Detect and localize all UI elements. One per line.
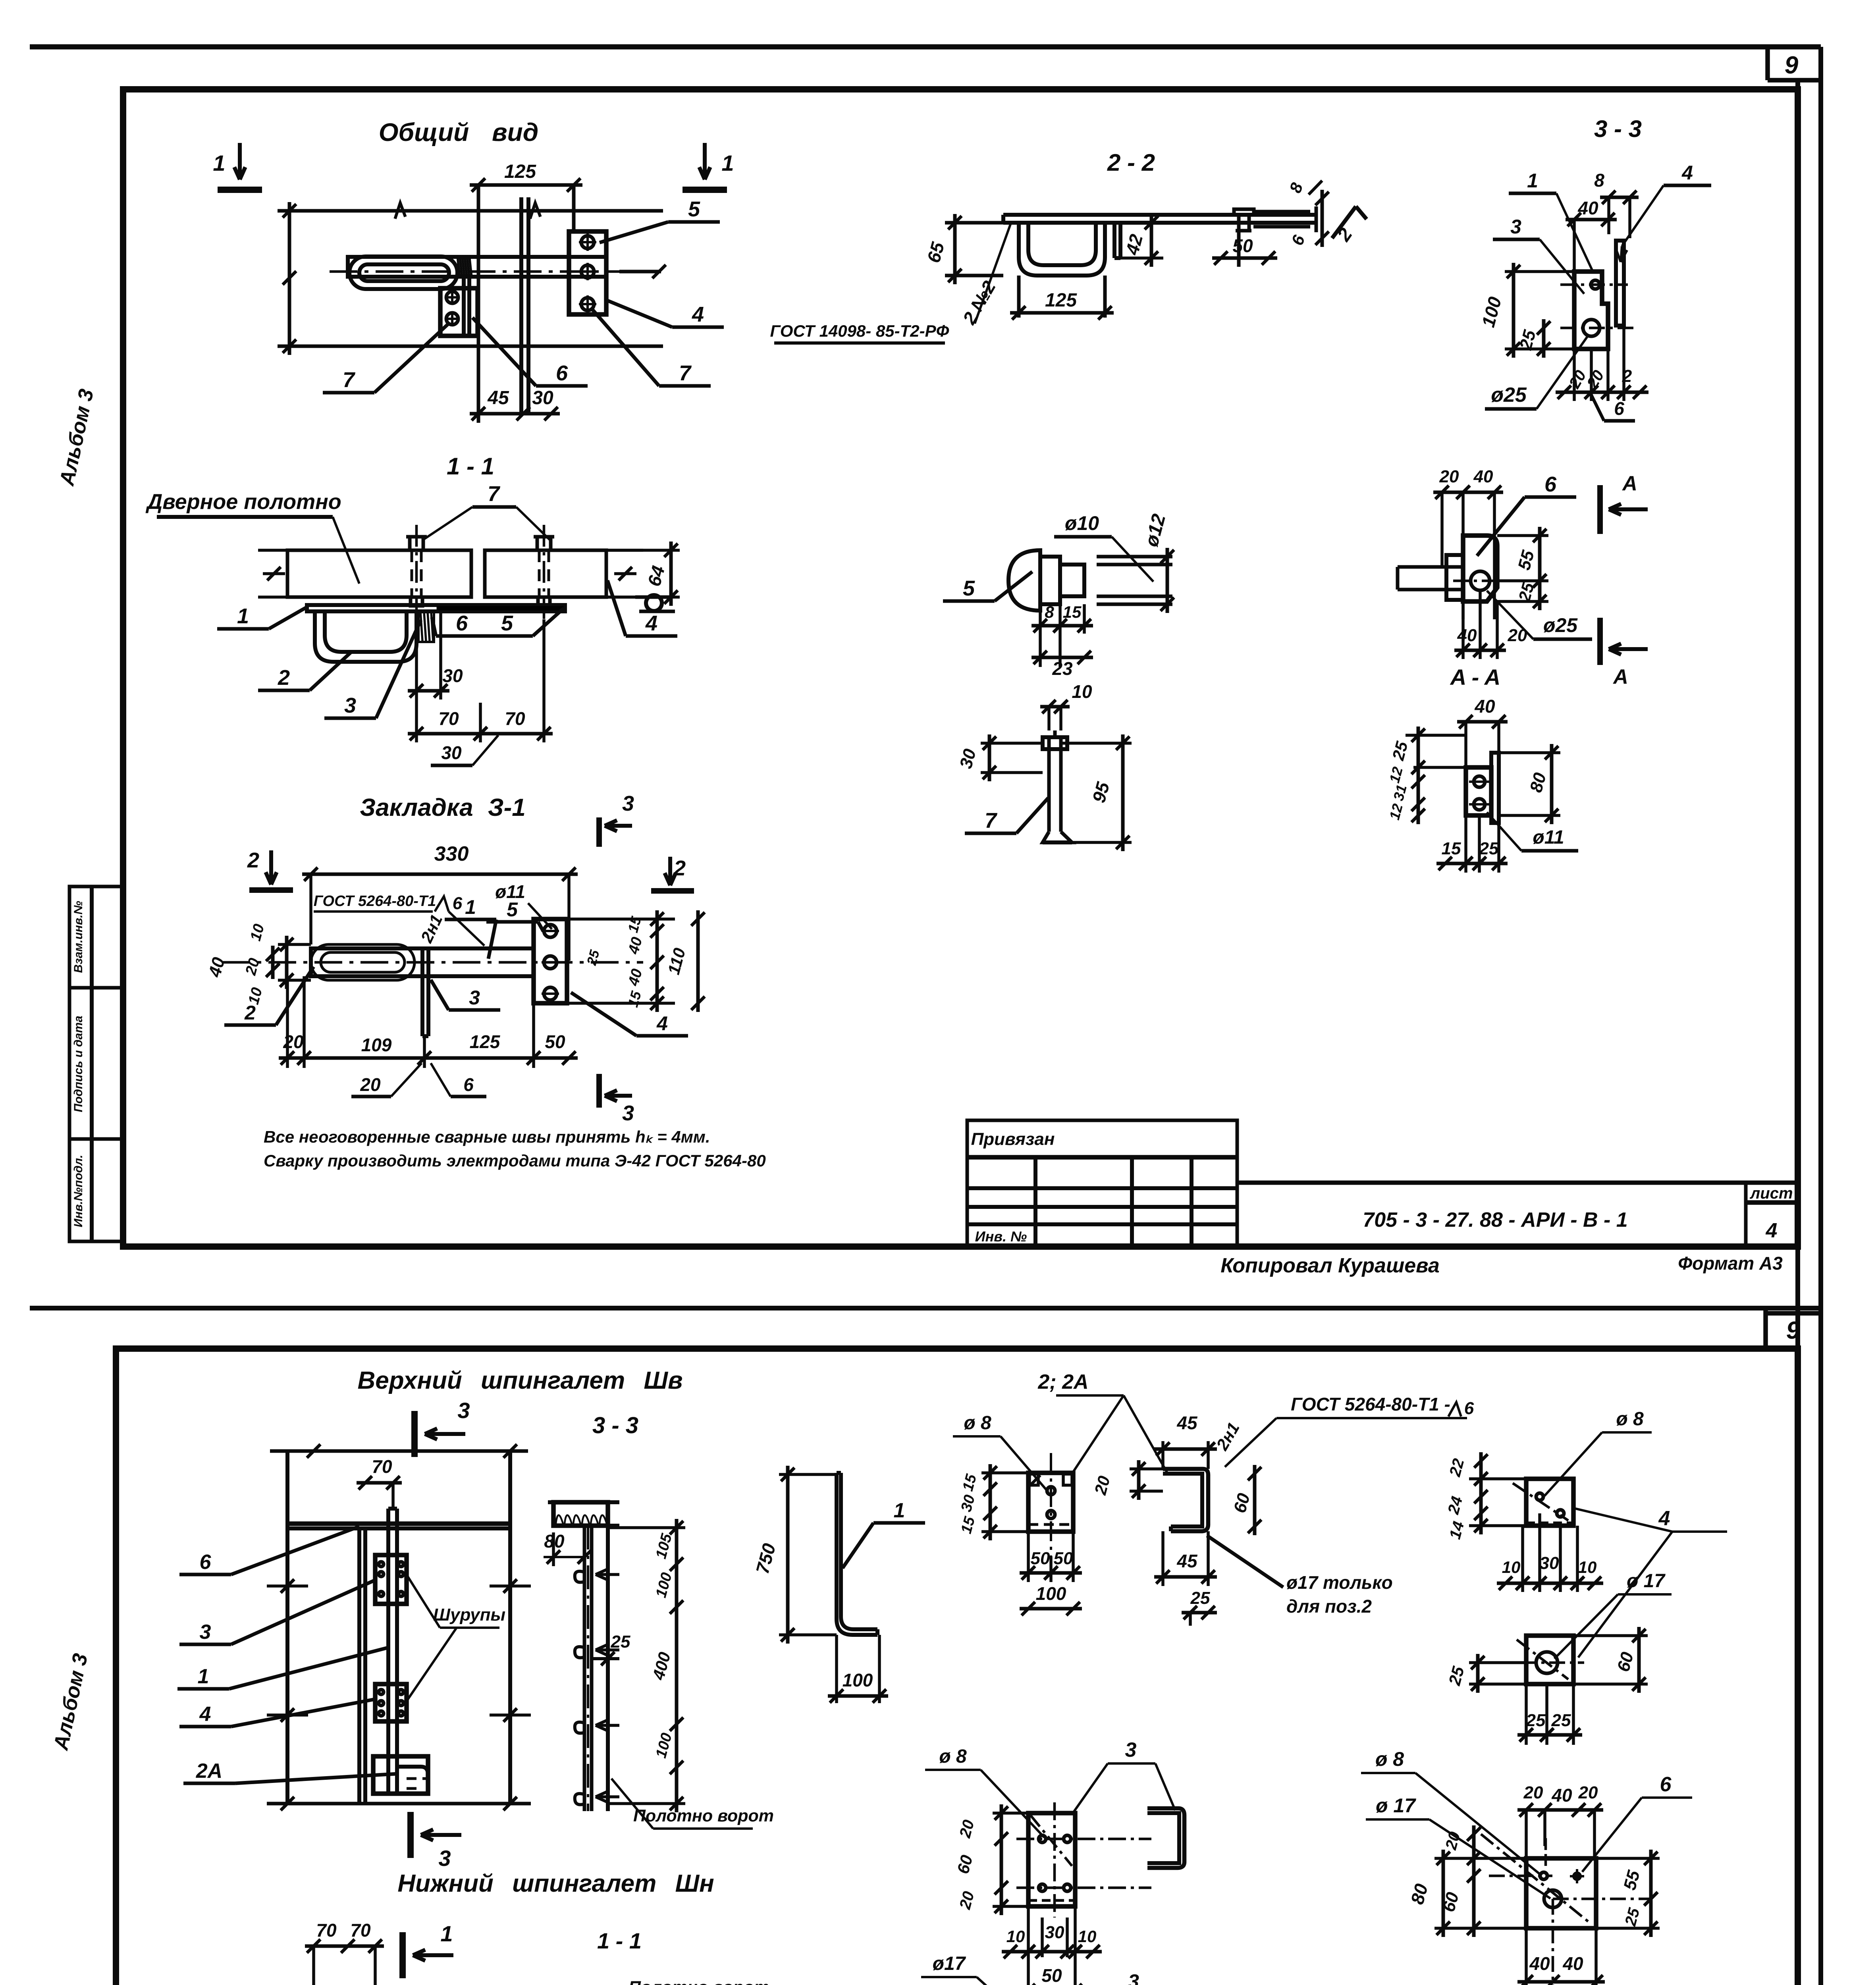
svg-text:23: 23	[1052, 658, 1073, 679]
svg-text:3: 3	[457, 1398, 470, 1423]
svg-text:6: 6	[556, 361, 568, 385]
svg-text:20: 20	[283, 1031, 304, 1052]
svg-text:6: 6	[456, 611, 468, 635]
svg-text:65: 65	[923, 239, 949, 265]
svg-text:15: 15	[1442, 839, 1461, 858]
svg-text:Альбом 3: Альбом 3	[49, 1652, 92, 1753]
svg-text:25: 25	[1621, 1906, 1643, 1928]
svg-text:ø17: ø17	[933, 1953, 966, 1974]
svg-text:4: 4	[1681, 162, 1693, 184]
svg-text:6: 6	[1544, 472, 1557, 496]
svg-text:14: 14	[1446, 1519, 1467, 1541]
svg-text:ø 17: ø 17	[1376, 1794, 1416, 1817]
svg-text:20: 20	[956, 1818, 978, 1840]
svg-text:40: 40	[1562, 1953, 1583, 1974]
svg-text:4: 4	[1766, 1219, 1778, 1242]
svg-text:2: 2	[244, 1002, 256, 1024]
svg-text:40: 40	[1474, 696, 1495, 717]
svg-text:7: 7	[343, 368, 356, 392]
svg-text:ø 8: ø 8	[1616, 1409, 1644, 1430]
svg-text:Взам.инв.№: Взам.инв.№	[72, 901, 85, 973]
svg-text:3: 3	[1128, 1970, 1139, 1985]
svg-text:70: 70	[350, 1920, 371, 1941]
svg-text:8: 8	[1286, 180, 1306, 195]
svg-text:3: 3	[622, 792, 634, 815]
svg-text:30: 30	[1045, 1923, 1064, 1942]
svg-text:42: 42	[1122, 232, 1147, 257]
svg-text:Шурупы: Шурупы	[433, 1605, 505, 1625]
svg-text:40: 40	[1551, 1785, 1572, 1806]
svg-text:ø12: ø12	[1141, 512, 1170, 549]
svg-text:30: 30	[442, 665, 463, 686]
svg-text:Формат А3: Формат А3	[1678, 1253, 1783, 1274]
svg-text:22: 22	[1446, 1457, 1467, 1478]
svg-text:3: 3	[438, 1846, 451, 1871]
svg-text:45: 45	[487, 387, 509, 409]
svg-text:20: 20	[1442, 1830, 1463, 1852]
svg-text:125: 125	[504, 161, 536, 182]
svg-text:7: 7	[679, 361, 692, 385]
svg-text:1: 1	[440, 1921, 453, 1946]
svg-text:7: 7	[488, 482, 501, 506]
svg-text:ГОСТ 5264-80-Т1: ГОСТ 5264-80-Т1	[314, 893, 436, 910]
svg-text:40: 40	[625, 967, 646, 988]
svg-text:10: 10	[1578, 1558, 1597, 1576]
svg-text:400: 400	[649, 1650, 674, 1682]
svg-text:Подпись и дата: Подпись и дата	[72, 1016, 85, 1112]
svg-text:24: 24	[1444, 1494, 1466, 1516]
svg-text:A - A: A - A	[1450, 665, 1501, 690]
svg-text:25: 25	[611, 1632, 630, 1652]
svg-text:80: 80	[1407, 1881, 1432, 1906]
svg-text:5: 5	[501, 611, 513, 635]
svg-text:лист: лист	[1749, 1185, 1793, 1202]
svg-text:9: 9	[1785, 52, 1799, 79]
svg-text:20: 20	[1523, 1783, 1543, 1802]
svg-text:105: 105	[653, 1532, 675, 1561]
svg-text:6: 6	[463, 1074, 474, 1095]
svg-text:64: 64	[644, 563, 669, 588]
svg-text:40: 40	[1473, 467, 1493, 486]
svg-text:1 - 1: 1 - 1	[597, 1928, 642, 1953]
svg-text:40: 40	[625, 935, 646, 956]
svg-text:3: 3	[200, 1621, 211, 1644]
svg-text:4: 4	[1658, 1507, 1670, 1530]
svg-text:50: 50	[1232, 235, 1253, 256]
svg-text:A: A	[1612, 665, 1628, 688]
svg-text:30: 30	[958, 1493, 979, 1514]
svg-text:109: 109	[361, 1035, 392, 1055]
svg-text:ГОСТ 5264-80-Т1 -: ГОСТ 5264-80-Т1 -	[1291, 1394, 1450, 1415]
svg-text:95: 95	[1088, 779, 1114, 805]
svg-text:5: 5	[963, 576, 975, 600]
svg-text:15: 15	[625, 989, 644, 1009]
svg-text:Все неоговоренные сварные швы: Все неоговоренные сварные швы принять hₖ…	[264, 1127, 710, 1146]
svg-text:20: 20	[1578, 1783, 1598, 1802]
svg-text:100: 100	[653, 1571, 675, 1600]
svg-text:125: 125	[470, 1031, 501, 1052]
svg-text:20: 20	[1091, 1474, 1114, 1497]
svg-text:ø25: ø25	[1543, 614, 1578, 636]
svg-text:6: 6	[453, 894, 463, 913]
svg-text:6: 6	[1660, 1773, 1672, 1796]
svg-text:25: 25	[1445, 1664, 1468, 1688]
svg-text:15: 15	[958, 1515, 979, 1536]
svg-text:Общий вид: Общий вид	[379, 118, 539, 146]
svg-text:125: 125	[1045, 290, 1077, 311]
svg-text:10: 10	[1072, 681, 1092, 702]
svg-text:2н1: 2н1	[1213, 1419, 1243, 1454]
svg-text:2 №2: 2 №2	[958, 277, 1000, 328]
svg-text:A: A	[1621, 472, 1637, 495]
svg-text:3: 3	[344, 694, 356, 717]
svg-text:70: 70	[438, 708, 459, 729]
svg-text:20: 20	[1508, 626, 1527, 645]
svg-text:8: 8	[1045, 603, 1054, 621]
svg-text:25: 25	[1526, 1711, 1546, 1730]
svg-text:40: 40	[205, 955, 229, 979]
svg-text:2: 2	[1333, 224, 1356, 245]
svg-text:4: 4	[656, 1012, 668, 1035]
svg-text:100: 100	[653, 1731, 675, 1760]
svg-text:ГОСТ 14098- 85-Т2-РФ: ГОСТ 14098- 85-Т2-РФ	[770, 322, 949, 340]
svg-text:Полотно ворот: Полотно ворот	[629, 1978, 769, 1985]
svg-text:25: 25	[1388, 739, 1411, 763]
svg-text:1: 1	[721, 150, 734, 175]
svg-text:Сварку производить электродами: Сварку производить электродами типа Э-42…	[264, 1151, 766, 1170]
svg-text:12: 12	[1386, 802, 1406, 821]
svg-text:30: 30	[1540, 1553, 1559, 1573]
svg-text:20: 20	[1439, 467, 1459, 486]
svg-text:25: 25	[1190, 1588, 1210, 1608]
svg-text:4: 4	[199, 1703, 211, 1726]
svg-text:Нижний шпингалет Шн: Нижний шпингалет Шн	[397, 1870, 714, 1897]
svg-text:ø 8: ø 8	[964, 1413, 991, 1434]
svg-text:25: 25	[1551, 1711, 1571, 1730]
svg-text:6: 6	[200, 1551, 212, 1574]
svg-text:3 - 3: 3 - 3	[1594, 116, 1642, 142]
svg-text:2 - 2: 2 - 2	[1107, 149, 1155, 176]
svg-text:2: 2	[278, 666, 290, 690]
svg-text:ø 8: ø 8	[939, 1746, 967, 1767]
svg-text:50: 50	[545, 1031, 565, 1052]
svg-text:2: 2	[673, 856, 686, 880]
svg-text:100: 100	[1477, 295, 1505, 330]
svg-text:20: 20	[956, 1889, 978, 1911]
svg-text:1: 1	[213, 150, 225, 175]
svg-text:4: 4	[645, 611, 657, 635]
svg-text:100: 100	[1036, 1583, 1066, 1604]
svg-text:Альбом 3: Альбом 3	[55, 387, 98, 488]
svg-text:1: 1	[198, 1665, 209, 1688]
svg-text:Дверное полотно: Дверное полотно	[145, 490, 341, 514]
svg-text:705 - 3 - 27. 88 - АРИ - В - 1: 705 - 3 - 27. 88 - АРИ - В - 1	[1363, 1208, 1627, 1231]
svg-text:55: 55	[1620, 1868, 1644, 1892]
svg-text:20: 20	[360, 1074, 381, 1095]
svg-text:1: 1	[465, 896, 476, 918]
svg-text:Копировал Курашева: Копировал Курашева	[1220, 1254, 1440, 1277]
svg-text:6: 6	[1464, 1399, 1474, 1418]
svg-text:10: 10	[1502, 1558, 1521, 1576]
svg-text:3: 3	[1125, 1738, 1137, 1761]
svg-text:2А: 2А	[196, 1760, 222, 1783]
svg-text:2н1: 2н1	[417, 912, 446, 946]
svg-text:1: 1	[237, 604, 249, 628]
svg-text:750: 750	[752, 1541, 779, 1576]
svg-text:6: 6	[1288, 232, 1308, 248]
svg-text:Полотно ворот: Полотно ворот	[633, 1806, 774, 1825]
svg-text:60: 60	[1230, 1491, 1254, 1515]
svg-text:45: 45	[1176, 1413, 1198, 1433]
svg-text:45: 45	[1176, 1551, 1198, 1571]
svg-text:1 - 1: 1 - 1	[447, 453, 494, 480]
svg-text:1: 1	[1527, 170, 1538, 192]
svg-text:25: 25	[1479, 839, 1499, 858]
svg-text:60: 60	[1614, 1650, 1637, 1674]
svg-text:15: 15	[960, 1472, 980, 1493]
svg-text:30: 30	[956, 747, 980, 771]
svg-text:ø 17: ø 17	[1627, 1571, 1666, 1592]
svg-text:20: 20	[242, 956, 263, 977]
svg-text:Верхний шпингалет Шв: Верхний шпингалет Шв	[357, 1367, 683, 1394]
svg-text:8: 8	[1594, 170, 1604, 191]
svg-text:10: 10	[1006, 1927, 1025, 1946]
svg-text:80: 80	[1526, 771, 1550, 794]
svg-text:Инв.№подл.: Инв.№подл.	[72, 1155, 85, 1228]
svg-text:ø17 только: ø17 только	[1286, 1572, 1393, 1593]
svg-text:Инв. №: Инв. №	[975, 1228, 1027, 1245]
svg-text:30: 30	[532, 387, 553, 409]
svg-text:ø 8: ø 8	[1375, 1748, 1404, 1770]
svg-text:330: 330	[434, 842, 469, 865]
svg-text:4: 4	[692, 303, 704, 326]
svg-text:100: 100	[843, 1670, 873, 1690]
svg-text:30: 30	[441, 742, 462, 763]
svg-text:60: 60	[953, 1853, 976, 1876]
svg-text:10: 10	[247, 922, 268, 943]
svg-text:50: 50	[1041, 1965, 1062, 1985]
svg-text:Закладка З-1: Закладка З-1	[360, 794, 526, 821]
svg-text:70: 70	[316, 1920, 337, 1941]
svg-text:50: 50	[1031, 1549, 1050, 1568]
svg-text:ø25: ø25	[1491, 384, 1527, 407]
svg-text:3: 3	[1510, 216, 1521, 238]
svg-text:2; 2А: 2; 2А	[1037, 1370, 1088, 1393]
svg-text:25: 25	[584, 948, 603, 967]
svg-text:15: 15	[1063, 603, 1082, 621]
svg-text:70: 70	[372, 1456, 392, 1477]
svg-text:Привязан: Привязан	[971, 1129, 1055, 1149]
svg-text:для поз.2: для поз.2	[1286, 1596, 1372, 1617]
svg-text:110: 110	[664, 946, 689, 977]
svg-text:3: 3	[469, 987, 480, 1009]
svg-text:40: 40	[1529, 1953, 1550, 1974]
svg-text:20: 20	[1583, 367, 1608, 391]
svg-text:3 - 3: 3 - 3	[592, 1413, 638, 1438]
svg-text:15: 15	[625, 914, 644, 934]
svg-text:ø11: ø11	[1533, 827, 1564, 848]
svg-text:2: 2	[1622, 366, 1632, 386]
svg-text:50: 50	[1054, 1549, 1073, 1568]
svg-text:12: 12	[1386, 765, 1406, 784]
svg-text:1: 1	[894, 1499, 905, 1522]
svg-text:3: 3	[622, 1101, 634, 1125]
svg-text:7: 7	[985, 809, 998, 833]
svg-text:31: 31	[1390, 783, 1410, 802]
svg-text:6: 6	[1614, 398, 1624, 419]
svg-text:5: 5	[688, 197, 700, 221]
svg-text:5: 5	[507, 898, 518, 921]
svg-text:55: 55	[1514, 548, 1538, 572]
svg-text:70: 70	[505, 708, 525, 729]
svg-text:10: 10	[1078, 1927, 1097, 1946]
svg-text:9: 9	[1786, 1317, 1800, 1344]
svg-text:ø10: ø10	[1065, 512, 1099, 534]
svg-text:2: 2	[247, 848, 259, 872]
svg-text:40: 40	[1457, 626, 1477, 645]
